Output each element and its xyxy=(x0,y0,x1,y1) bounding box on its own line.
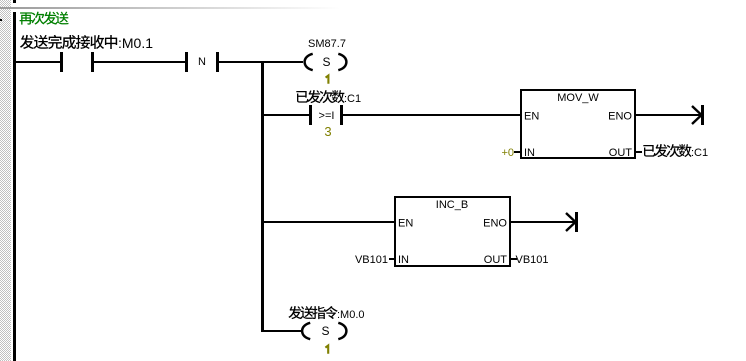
svg-text::C1: :C1 xyxy=(691,147,708,159)
operand label 发送完成接收中:M0.1 xyxy=(20,35,34,49)
MOV_W OUT tick xyxy=(636,151,642,153)
coil S SM87.7 xyxy=(305,54,313,70)
svg-text:ENO: ENO xyxy=(483,218,507,230)
svg-text:VB101: VB101 xyxy=(355,254,388,266)
coil SM87.7 set value 1 xyxy=(326,76,329,84)
svg-text:3: 3 xyxy=(324,124,331,139)
branch vertical wire xyxy=(261,61,264,332)
wire: branch to coil M0.0 xyxy=(261,330,303,332)
svg-text:MOV_W: MOV_W xyxy=(557,92,599,104)
svg-text:EN: EN xyxy=(398,218,413,230)
coil operand label 发送指令:M0.0 xyxy=(288,306,301,319)
rung continuation arrow (INC_B) xyxy=(575,212,578,232)
wire: N contact to coil SM87.7 xyxy=(219,61,303,63)
comparison operand label 已发次数:C1 xyxy=(296,91,308,103)
svg-text:INC_B: INC_B xyxy=(436,199,468,211)
wire: branch to INC_B EN xyxy=(264,221,394,223)
svg-text::M0.0: :M0.0 xyxy=(337,309,365,321)
network title 再次发送 xyxy=(20,12,33,24)
svg-text:SM87.7: SM87.7 xyxy=(308,38,346,50)
rung continuation arrow (MOV_W) xyxy=(701,105,704,125)
power rail (left bus bar) xyxy=(13,12,16,361)
svg-text:EN: EN xyxy=(524,111,539,123)
svg-text:IN: IN xyxy=(398,254,409,266)
svg-text:+0: +0 xyxy=(501,147,514,159)
wire: branch to comparison contact xyxy=(264,114,309,116)
svg-text:IN: IN xyxy=(524,147,535,159)
svg-text:S: S xyxy=(321,324,329,338)
wire: rail to contact M0.1 xyxy=(15,61,60,63)
coil M0.0 set value 1 xyxy=(325,346,328,354)
power rail stub above separator xyxy=(13,0,16,3)
wire: contact M0.1 to N contact xyxy=(94,61,185,63)
contact M0.1 (normally open) xyxy=(60,52,63,72)
contact N (negative edge) xyxy=(185,52,188,72)
svg-text:ENO: ENO xyxy=(608,111,632,123)
svg-text:S: S xyxy=(322,55,330,69)
INC_B IN tick xyxy=(389,258,395,260)
left margin dither xyxy=(0,0,11,361)
INC_B OUT tick xyxy=(511,258,517,260)
svg-text:OUT: OUT xyxy=(484,254,508,266)
wire: comparison contact to MOV_W EN xyxy=(343,114,520,116)
wire: INC_B ENO to arrow xyxy=(511,221,575,223)
left edge notch xyxy=(0,19,2,21)
svg-text::M0.1: :M0.1 xyxy=(118,35,153,51)
contact >=I compare xyxy=(309,105,312,125)
svg-text::C1: :C1 xyxy=(344,93,361,105)
coil S M0.0 xyxy=(302,323,310,339)
MOV_W output operand 已发次数:C1 xyxy=(643,145,655,157)
svg-text:OUT: OUT xyxy=(609,147,633,159)
box MOV_W xyxy=(521,90,635,158)
wire: MOV_W ENO to arrow xyxy=(636,114,701,116)
svg-text:N: N xyxy=(198,56,206,68)
MOV_W IN tick xyxy=(514,151,520,153)
box INC_B xyxy=(395,197,510,266)
svg-text:>=I: >=I xyxy=(319,110,335,122)
svg-text:VB101: VB101 xyxy=(516,254,549,266)
network separator line xyxy=(0,7,340,9)
